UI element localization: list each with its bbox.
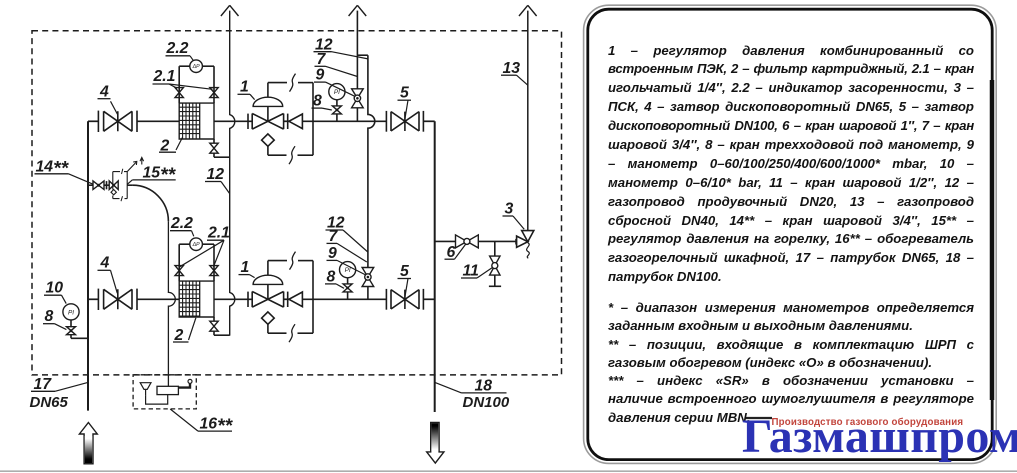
filter drain needle valve to purge line (upper train) [213, 139, 215, 143]
safety relief valve PSK 3 with spring [515, 239, 517, 245]
svg-text:ΔP: ΔP [192, 242, 200, 248]
clog indicator 2.2 (dP gauge) (upper train) [179, 65, 190, 67]
relief outlet arrow (line 13) [519, 5, 537, 16]
ball valve 11 (1/2 inch) with vent stub [494, 241, 496, 256]
relief line 13 (DN40) [527, 11, 529, 231]
svg-text:1: 1 [241, 259, 250, 276]
svg-text:8: 8 [45, 308, 54, 325]
purge collector line 12 (DN20) with pipe hops [230, 11, 235, 336]
svg-text:5: 5 [400, 263, 409, 280]
svg-text:9: 9 [328, 245, 337, 262]
svg-text:PI: PI [345, 267, 351, 274]
legend panel frame [584, 5, 997, 463]
svg-text:7: 7 [329, 228, 339, 245]
svg-text:DN65: DN65 [30, 394, 69, 411]
page bottom hairline [0, 470, 1017, 472]
main gas pipe of train (lower train) [88, 298, 98, 300]
butterfly valve 4 (DN65) (lower train) [97, 289, 99, 310]
pressure regulator 1 with built-in shutoff (lower train) [247, 292, 249, 307]
svg-text:8: 8 [327, 269, 336, 286]
ball valve 7 and purge drop (lower train) [368, 55, 375, 267]
filter drain needle valve to purge line (lower train) [213, 317, 215, 321]
svg-text:ΔP: ΔP [192, 64, 200, 70]
svg-text:18: 18 [475, 377, 493, 394]
svg-text:12: 12 [207, 166, 225, 183]
svg-text:15**: 15** [143, 165, 177, 186]
svg-text:10: 10 [46, 280, 64, 297]
vent arrow (purge riser) [349, 5, 367, 16]
inlet manometer 10 with three-way cock 8 [63, 304, 79, 320]
svg-text:17: 17 [34, 376, 53, 393]
svg-text:11: 11 [463, 263, 479, 280]
pressure regulator 1 with built-in shutoff (upper train) [247, 114, 249, 129]
needle valves 2.1 (1/4") impulse taps (upper train) [178, 66, 180, 103]
ball valve 14** (3/4 inch) heater tap [88, 184, 93, 186]
svg-text:9: 9 [316, 67, 325, 84]
clog indicator 2.2 (dP gauge) (lower train) [179, 243, 190, 245]
svg-text:2.2: 2.2 [170, 215, 193, 232]
inlet riser pipe (17, DN65) [87, 121, 89, 410]
ShRP enclosure boundary (dashed) [32, 31, 562, 375]
svg-text:1: 1 [240, 79, 249, 96]
main gas pipe of train (upper train) [88, 120, 98, 122]
three-way cock 8 and manometer 9 (PI) (lower train) [347, 292, 349, 299]
svg-text:8: 8 [313, 93, 322, 110]
svg-text:4: 4 [99, 84, 109, 101]
svg-text:2.1: 2.1 [207, 225, 230, 242]
svg-text:2.2: 2.2 [166, 40, 189, 57]
filter 2 (cartridge) body (lower train) [179, 281, 214, 317]
gas line to cabinet heater (hops over train pipe) [127, 184, 132, 186]
logo rule dash [746, 417, 773, 419]
svg-text:6: 6 [447, 244, 456, 261]
svg-text:2.1: 2.1 [153, 68, 176, 85]
svg-text:7: 7 [317, 51, 327, 68]
svg-text:16**: 16** [200, 416, 234, 437]
ball valve 7 and purge riser (upper train) [356, 108, 358, 122]
filter 2 (cartridge) body (upper train) [179, 103, 214, 139]
svg-text:PI: PI [334, 89, 340, 96]
butterfly valve 4 (DN65) (upper train) [97, 111, 99, 132]
cabinet gas heater 16** (dashed package) [133, 375, 196, 409]
gas outlet flow arrow (bottom middle) [427, 423, 444, 464]
butterfly valve 5 (DN100) (upper train) [385, 111, 387, 132]
svg-text:13: 13 [503, 60, 521, 77]
svg-text:14**: 14** [36, 158, 70, 179]
ball valve 6 (1 inch) on relief branch [435, 240, 456, 242]
svg-text:PI: PI [68, 309, 74, 316]
svg-text:3: 3 [505, 201, 514, 218]
svg-text:5: 5 [400, 85, 409, 102]
outlet pipe (18, DN100) [434, 121, 436, 412]
burner pressure regulator 15** with vent [109, 181, 118, 190]
svg-text:4: 4 [100, 255, 110, 272]
three-way cock 8 and manometer 9 (PI) (upper train) [336, 114, 338, 121]
needle valves 2.1 (1/4") impulse taps (lower train) [178, 244, 180, 281]
butterfly valve 5 (DN100) (lower train) [385, 289, 387, 310]
purge outlet arrow (line 12) [221, 5, 239, 16]
svg-text:DN100: DN100 [463, 394, 510, 411]
